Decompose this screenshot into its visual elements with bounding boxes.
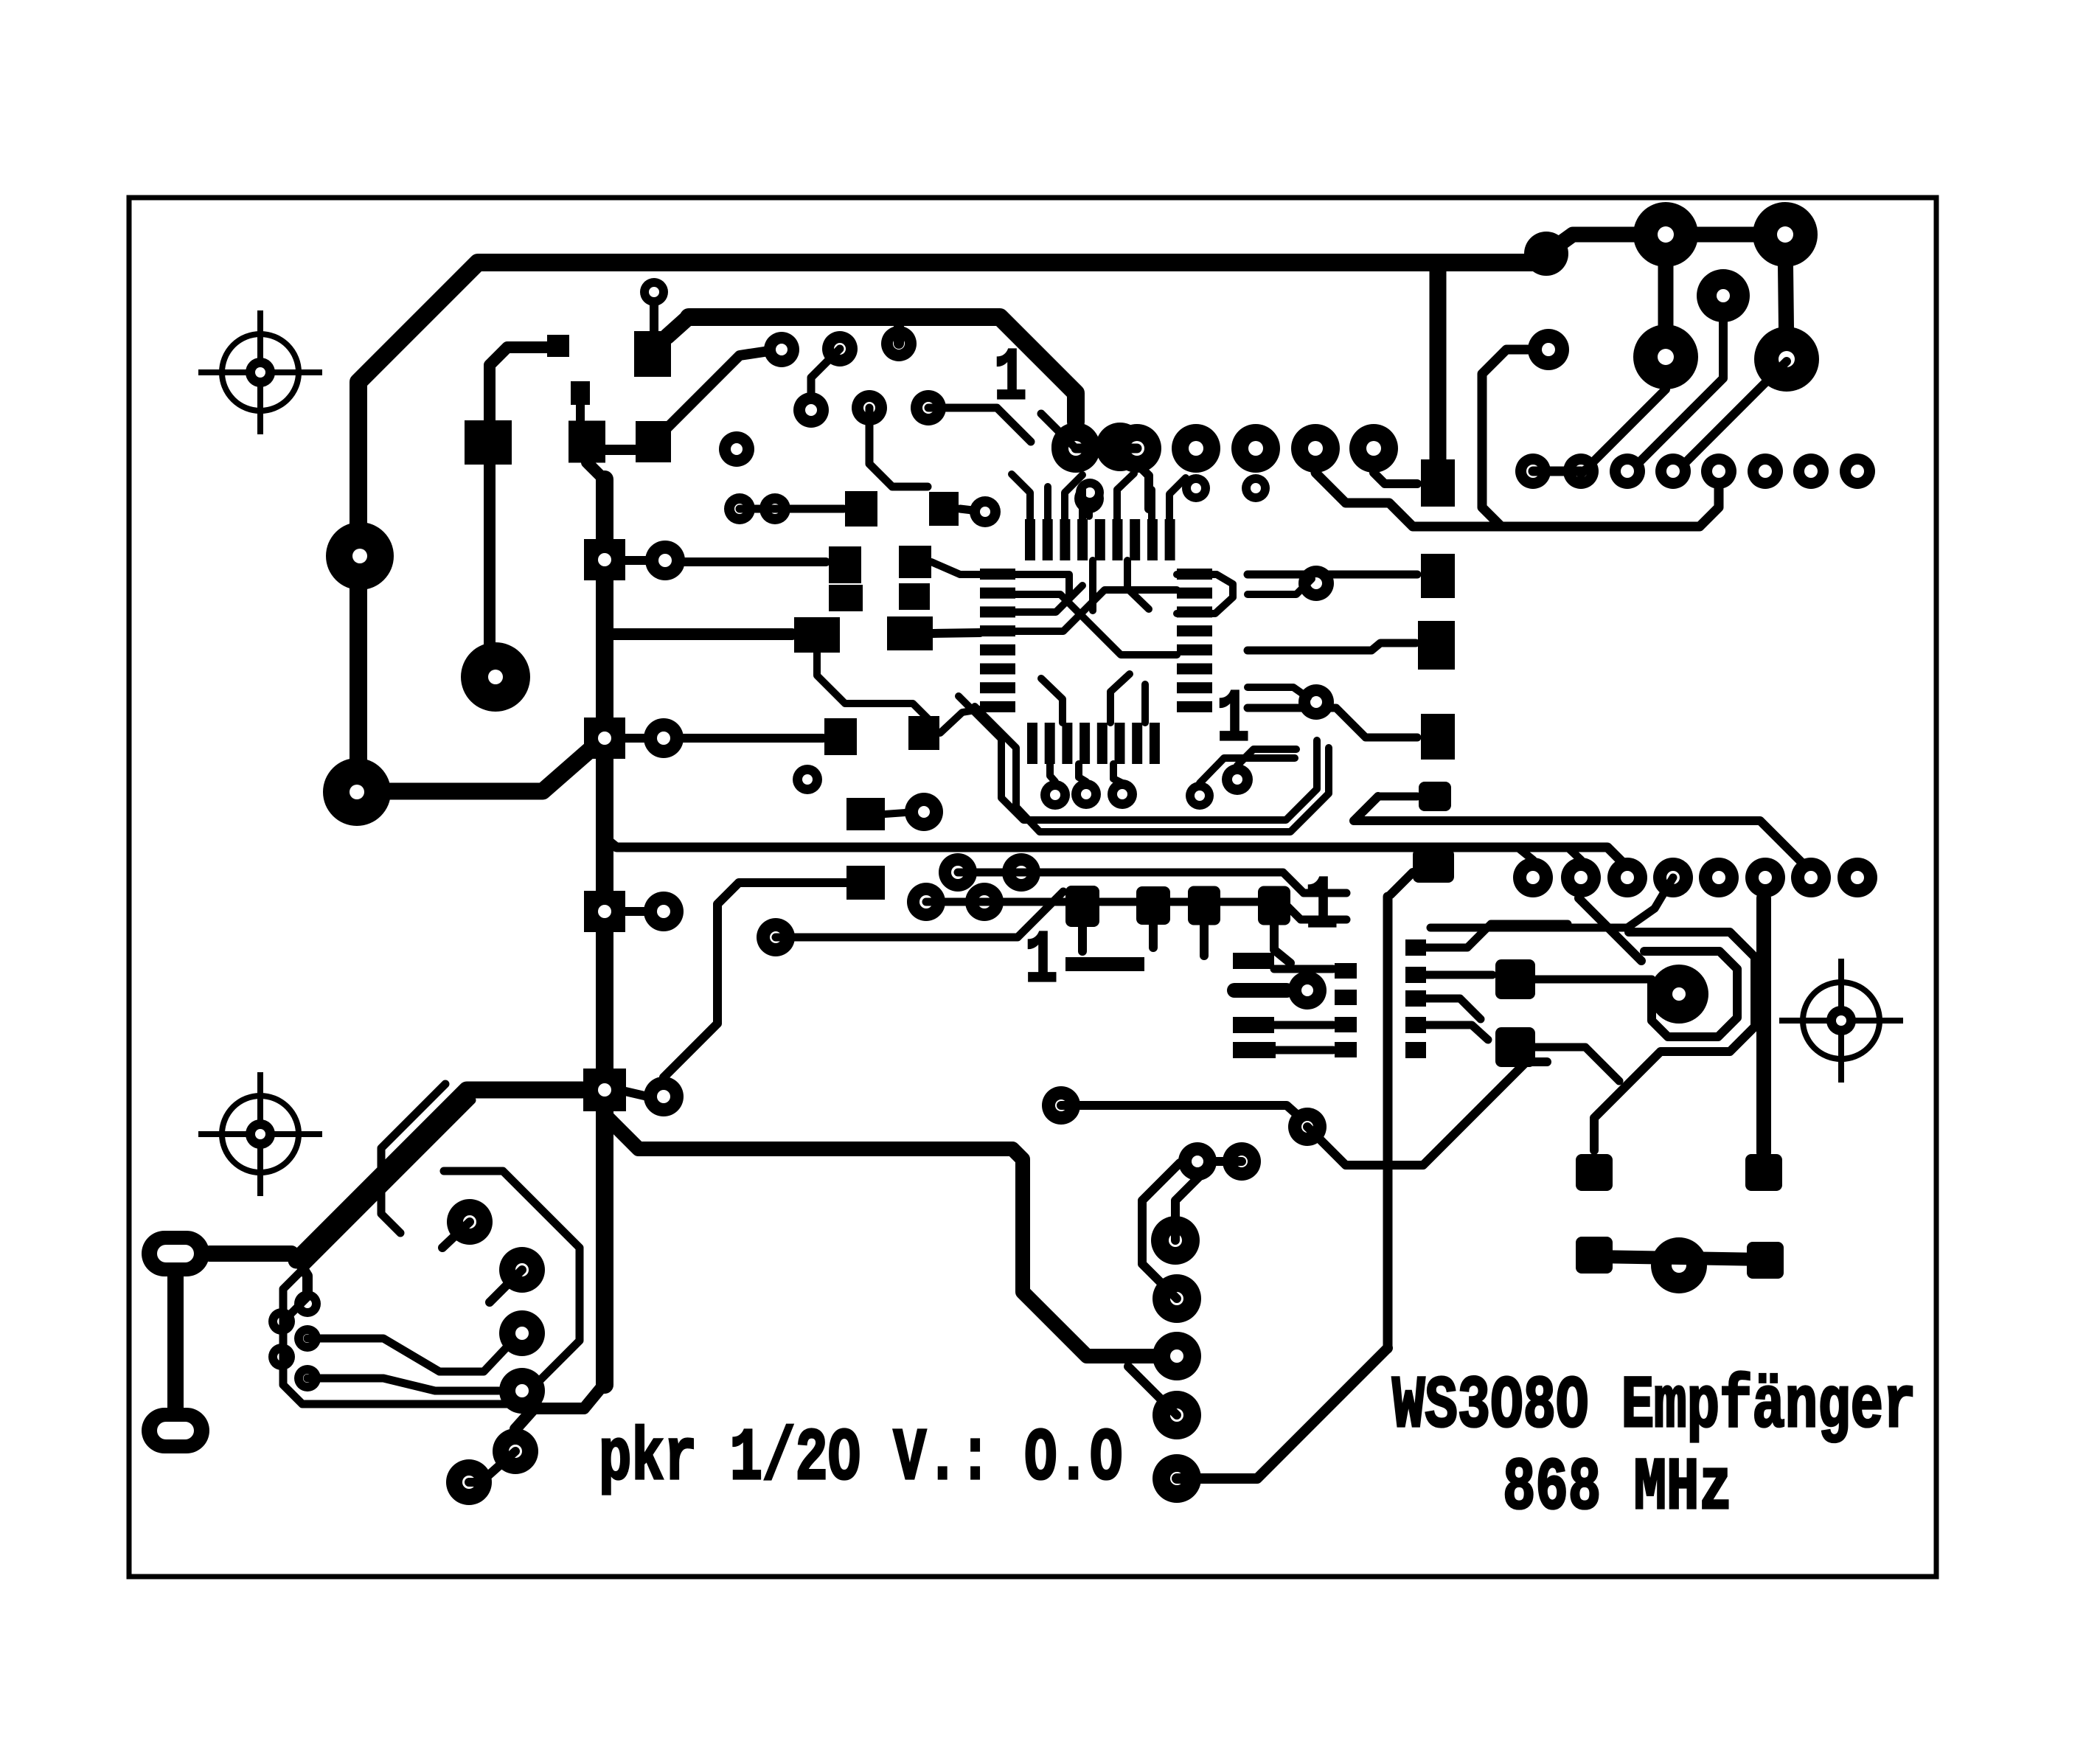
wire MD3 stub	[1200, 925, 1209, 956]
wire bus rail D	[776, 892, 1063, 937]
pad square K3	[584, 891, 625, 932]
smd pad L1	[829, 546, 861, 583]
via big W6	[447, 1199, 493, 1245]
wire J1-6 to P1	[1374, 473, 1417, 484]
via IC right 2	[1298, 684, 1334, 720]
wire W2 stub	[283, 1295, 310, 1321]
wire trunk start	[587, 462, 605, 480]
via IC fan 1	[1040, 780, 1070, 810]
wire TR5 to J2-3	[1630, 322, 1723, 472]
IC U1 right pin 4	[1177, 625, 1212, 636]
pad big TR1	[1633, 202, 1698, 267]
wire B1-B2	[958, 869, 1021, 877]
svg-text:WS3O8O Empfänger: WS3O8O Empfänger	[1392, 1366, 1916, 1449]
IC U1 top pin 9	[1165, 519, 1175, 560]
wire K2 stub	[625, 734, 644, 743]
wire fanout top pin7	[1148, 490, 1155, 519]
module right pin 2	[1405, 967, 1426, 983]
via big W7	[499, 1247, 545, 1293]
wire K1 stub	[625, 556, 646, 565]
smd pad MD4	[1258, 886, 1290, 925]
IC U1 left pin 8	[980, 701, 1015, 712]
IC U1 bottom pin 5	[1097, 723, 1108, 764]
wire S1 right	[209, 1254, 296, 1258]
via W1	[294, 1290, 321, 1317]
module left pin 4	[1335, 1042, 1357, 1057]
wire T6 right	[928, 408, 1031, 442]
IC U1 interior wire b	[1015, 586, 1082, 612]
pad connector J1-5	[1291, 424, 1340, 473]
wire fan stub1	[1050, 764, 1055, 782]
via T2	[822, 331, 858, 366]
pad connector J3-8	[1838, 858, 1877, 897]
smd pad MR1	[1495, 959, 1535, 999]
wire thick trunk to P1	[1430, 263, 1447, 461]
IC U1 left pin 6	[980, 664, 1015, 675]
IC U1 left pin 5	[980, 645, 1015, 656]
smd pad MB3	[1233, 1042, 1276, 1058]
module right pin 1	[1405, 939, 1426, 956]
smd pad R2	[1745, 1154, 1782, 1191]
wire MD4 stub	[1274, 925, 1290, 963]
wire pin to MR1	[1426, 971, 1492, 979]
via T4	[793, 392, 829, 428]
wire M2 to IC	[933, 633, 980, 633]
wire pin to MR2	[1426, 1025, 1488, 1040]
wire low diag	[1307, 1062, 1547, 1165]
wire J3-2 stub	[1568, 847, 1581, 860]
via col 1	[1151, 1216, 1200, 1265]
smd pad F3	[636, 421, 671, 462]
via IC fan 4	[1186, 782, 1214, 810]
smd pad D1	[634, 331, 671, 377]
via W5	[294, 1365, 321, 1392]
wire Q ring outer with tail	[1594, 932, 1755, 1150]
wire K1r to L1	[685, 557, 826, 566]
pad connector J2-5	[1701, 454, 1736, 489]
smd pad R3	[1576, 1237, 1613, 1274]
wire big diag to K4	[296, 1090, 583, 1260]
pad connector J2-8	[1840, 454, 1875, 489]
pad connector J2-7	[1793, 454, 1829, 489]
fiducial mark bottom-left	[198, 1072, 322, 1196]
IC U1 top pin 2	[1043, 519, 1053, 560]
IC U1 interior wire i	[1041, 678, 1063, 723]
pad big TR4	[1754, 327, 1819, 392]
wire F1 down to pad B	[484, 465, 496, 656]
IC U1 interior wire a	[1015, 574, 1069, 599]
smd pad N1	[824, 718, 857, 755]
wire T2-T4	[811, 349, 840, 410]
wire stub	[650, 305, 658, 332]
via N3	[793, 765, 822, 794]
wire IC pin to P2b	[1248, 643, 1416, 650]
pad oval S2	[142, 1408, 209, 1453]
via T1	[764, 332, 799, 367]
svg-text:1: 1	[1025, 920, 1057, 1004]
via IC fan 3	[1108, 779, 1137, 809]
pad connector J2-4	[1655, 454, 1691, 489]
smd pad E1	[547, 335, 569, 357]
via K2r	[644, 718, 684, 758]
wire fan via4 up	[1200, 758, 1295, 783]
pad connector J3-7	[1791, 858, 1831, 897]
IC U1 top pin 1	[1025, 519, 1035, 560]
wire H1-H2	[1076, 442, 1120, 452]
IC U1 bottom pin 4	[1079, 723, 1090, 764]
via T8	[724, 493, 755, 524]
wire S1-S2	[167, 1276, 184, 1408]
via K1r	[645, 541, 685, 580]
wire vertical right	[1756, 898, 1771, 1153]
IC U1 left pin 4	[980, 625, 1015, 636]
pad connector J3-3	[1607, 858, 1647, 897]
IC U1 top pin 3	[1060, 519, 1070, 560]
wire long vertical	[1383, 897, 1393, 1349]
wire pin to via IR1	[1248, 579, 1312, 594]
wire K4r to O3	[664, 883, 846, 1077]
IC U1 top pin 4	[1077, 519, 1088, 560]
wire bus rail C	[984, 902, 1346, 920]
smd pad P3	[1421, 714, 1455, 760]
module right pin 3	[1405, 990, 1426, 1007]
wire C1-C2	[926, 898, 984, 906]
smd pad G1	[845, 491, 877, 527]
wire J3-1 stub	[1517, 847, 1533, 860]
wire ring outline outer	[283, 1100, 580, 1404]
via IC fan 2	[1071, 779, 1101, 809]
IC U1 right pin 5	[1177, 645, 1212, 656]
pad connector J3-2	[1561, 858, 1601, 897]
smd pad MD1	[1065, 886, 1099, 927]
IC U1 left pin 1	[980, 569, 1015, 580]
IC U1 bottom pin 7	[1132, 723, 1142, 764]
module right pin 4	[1405, 1017, 1426, 1033]
wire ring outline inner	[381, 1084, 445, 1233]
wire thick to pad cluster	[1546, 234, 1666, 254]
wire fanout top pin1	[1012, 474, 1030, 519]
IC U1 left pin 3	[980, 606, 1015, 617]
via T11	[1074, 484, 1104, 513]
via T7	[719, 431, 754, 467]
smd pad M1	[794, 617, 840, 653]
IC U1 left pin 7	[980, 682, 1015, 693]
wire fan ring outer	[959, 696, 1317, 820]
IC U1 bottom pin 6	[1115, 723, 1125, 764]
smd pad M3	[829, 585, 863, 611]
wire F3 45 to via T1	[662, 350, 779, 433]
pad connector J2-1	[1515, 454, 1551, 489]
via ST	[1528, 329, 1569, 370]
pad oval S1	[142, 1231, 209, 1276]
wire W5 right	[307, 1378, 498, 1391]
wire H2 down	[1120, 447, 1149, 509]
via big W11	[446, 1459, 492, 1505]
wire low rail	[1061, 1105, 1307, 1124]
wire TR4 to J2-4	[1675, 361, 1787, 473]
via O2	[905, 793, 943, 831]
wire MR1 into ring	[1535, 976, 1652, 984]
module left pin 3	[1335, 1017, 1357, 1032]
IC U1 top pin 7	[1130, 519, 1140, 560]
IC U1 bottom pin 1	[1027, 723, 1037, 764]
wire E1 to F1	[490, 347, 558, 420]
via low M	[1288, 1108, 1327, 1146]
wire bus rail A to J3-3	[609, 841, 1627, 876]
wire 45 to bar	[667, 317, 689, 336]
IC U1 interior wire h	[1141, 684, 1149, 723]
IC U1 right pin 8	[1177, 701, 1212, 712]
wire G2 to T10	[960, 509, 985, 512]
pad big A	[326, 522, 394, 590]
via under J1-3	[1182, 474, 1210, 502]
via low L	[1042, 1086, 1080, 1125]
IC U1 interior wire f	[1127, 560, 1149, 609]
IC U1 top pin 6	[1113, 519, 1123, 560]
pad mid TR5	[1697, 269, 1750, 322]
fiducial mark top-left	[198, 310, 322, 434]
via T3	[881, 326, 917, 361]
via K3r	[644, 892, 684, 931]
smd pad M2	[887, 616, 933, 650]
smd pad R4	[1747, 1242, 1784, 1279]
wire MB1 to pin	[1274, 965, 1333, 973]
wire thick TR right	[1785, 234, 1787, 359]
wire fanout top pin4	[1079, 490, 1086, 519]
wire thick trunk vertical	[596, 479, 613, 1385]
wire J1-5 long to J2-5	[1315, 473, 1719, 527]
smd pad MR2	[1495, 1027, 1535, 1067]
smd pad P1	[1421, 459, 1455, 507]
wire MB2 to pin	[1274, 1021, 1333, 1029]
svg-text:1: 1	[1305, 866, 1338, 949]
via col 2	[1152, 1274, 1201, 1323]
wire fan stub3	[1113, 764, 1122, 783]
smd pad L2	[899, 546, 931, 578]
pad Q center	[1649, 965, 1708, 1024]
wire bus rail B	[1021, 872, 1346, 893]
board outline frame	[129, 198, 1936, 1577]
wire to J2-2	[1581, 470, 1585, 474]
wire MD1 stub	[1078, 927, 1087, 951]
smd pad P2	[1421, 554, 1455, 598]
wire bar to via	[1234, 983, 1287, 998]
pad connector J3-6	[1745, 858, 1785, 897]
svg-text:1: 1	[994, 338, 1026, 421]
pad H2	[1096, 423, 1144, 471]
pad R5	[1651, 1237, 1707, 1293]
IC U1 left pin 2	[980, 588, 1015, 599]
IC U1 right pin 6	[1177, 664, 1212, 675]
wire pin top right	[1426, 924, 1568, 948]
pad big B	[461, 642, 530, 712]
wire thick trunk-module	[606, 1116, 1177, 1356]
wire TR3 to J2-2	[1585, 389, 1666, 470]
via small top	[640, 278, 668, 306]
via IC fan 5	[1222, 764, 1253, 795]
wire T8-T9 to G1	[740, 505, 844, 513]
wire J3-4 left	[1430, 878, 1673, 928]
IC U1 bottom pin 3	[1062, 723, 1072, 764]
wire MB3 to pin	[1275, 1046, 1333, 1055]
fiducial mark right	[1779, 959, 1903, 1083]
wire trunk end to W10	[515, 1383, 605, 1429]
pad connector J1-1	[1051, 424, 1100, 473]
wire J1-1 up	[1041, 414, 1076, 448]
wire J1 1-2	[1076, 444, 1137, 454]
smd pad E2	[571, 381, 590, 405]
wire stub E2	[576, 405, 585, 420]
wire K3 stub	[625, 907, 644, 916]
via col 5	[1152, 1454, 1201, 1503]
via col 3	[1152, 1332, 1201, 1380]
via under J1-1	[1076, 479, 1104, 507]
via col 4	[1152, 1391, 1201, 1439]
IC U1 right pin 1	[1177, 569, 1212, 580]
wire L2 to IC	[931, 562, 980, 574]
wire thick TR left	[1658, 234, 1674, 357]
wire W3 right	[307, 1338, 509, 1372]
pad connector J3-1	[1513, 858, 1553, 897]
smd pad M4	[899, 583, 930, 610]
IC U1 interior wire c	[1015, 590, 1177, 631]
wire hook1	[1175, 1161, 1242, 1240]
wire fanout top pin2	[1044, 487, 1051, 519]
wire F2-F3	[605, 445, 635, 455]
wire thick second bar	[689, 317, 1076, 422]
svg-text:868 MHz: 868 MHz	[1503, 1448, 1732, 1531]
via T5	[852, 390, 887, 425]
via end of top bar	[1524, 232, 1568, 276]
via T10	[970, 496, 1001, 527]
pad connector J2-2	[1563, 454, 1599, 489]
via W2	[268, 1308, 295, 1335]
pad connector J1-3	[1172, 424, 1220, 473]
smd pad R1	[1576, 1154, 1613, 1191]
smd pad P2b	[1418, 621, 1455, 670]
via T6	[911, 390, 946, 425]
wire Q entry diag	[1579, 898, 1641, 961]
wire P3b stub	[1378, 793, 1417, 801]
via big W10	[493, 1428, 538, 1474]
wire junction down	[296, 1258, 307, 1298]
pad big TR2	[1753, 202, 1818, 267]
wire fan via5 up	[1237, 749, 1296, 765]
via big W8	[499, 1310, 545, 1356]
smd pad MB2	[1233, 1017, 1274, 1033]
wire rail R1 to J3-7	[1354, 796, 1810, 871]
smd pad G2	[929, 492, 959, 526]
wire W6 stub	[442, 1222, 470, 1248]
via C1	[907, 883, 945, 921]
smd pad P4	[1413, 849, 1454, 883]
via low A	[1178, 1142, 1217, 1181]
IC U1 interior wire g	[1110, 674, 1130, 723]
wire fanout top pin3	[1065, 475, 1082, 519]
wire GND thick top loop	[358, 263, 1532, 792]
IC U1 right pin 2	[1177, 588, 1212, 599]
IC U1 top pin 5	[1095, 519, 1105, 560]
wire fan stub2	[1079, 764, 1086, 782]
pad connector J1-2	[1113, 424, 1161, 473]
pad connector J1-6	[1349, 424, 1398, 473]
IC U1 top pin 8	[1147, 519, 1158, 560]
svg-text:pkr 1/2O V.: O.O: pkr 1/2O V.: O.O	[599, 1418, 1122, 1501]
via B2	[1002, 853, 1040, 892]
wire MR2 to tail	[1535, 1047, 1619, 1081]
svg-text:1: 1	[1217, 679, 1249, 762]
via C2	[965, 883, 1004, 921]
wire P4 stub	[1391, 872, 1413, 894]
module right pin 5	[1405, 1042, 1426, 1058]
smd pad O1	[846, 798, 885, 830]
smd bar under MD1	[1065, 957, 1144, 971]
pad square K4	[583, 1069, 626, 1111]
wire MD2 stub	[1149, 925, 1158, 948]
wire bottom row	[1594, 1257, 1765, 1260]
pad square K2	[584, 718, 625, 759]
wire fanout top pin8	[1169, 478, 1186, 519]
wire thick pad C to trunk	[357, 750, 603, 791]
wire thick TR top	[1666, 227, 1785, 243]
pad connector J2-3	[1610, 454, 1645, 489]
wire M1 down	[817, 652, 933, 724]
pad connector J3-4	[1653, 858, 1693, 897]
pad connector J3-5	[1699, 858, 1739, 897]
via big W9	[499, 1368, 545, 1414]
smd pad F2	[569, 421, 605, 463]
wire col5 diag to vertical	[1177, 1348, 1388, 1479]
IC U1 interior wire e	[1089, 560, 1096, 611]
via W4	[268, 1344, 295, 1370]
wire staircase from via	[1482, 350, 1548, 527]
wire stub T11	[1085, 498, 1093, 516]
IC U1 bottom pin 8	[1150, 723, 1160, 764]
wire IC pin to P2	[1248, 571, 1417, 579]
smd pad N2	[908, 716, 939, 750]
wire stub T3	[894, 327, 904, 344]
smd pad MB1	[1233, 953, 1274, 969]
via K4r	[644, 1077, 684, 1116]
wire IC pin to P3	[1248, 708, 1417, 737]
wire K2r to N1	[684, 734, 823, 743]
smd pad MD2	[1136, 886, 1170, 925]
via W3	[294, 1325, 321, 1352]
wire trunk to M1	[605, 628, 792, 640]
wire N2 to IC	[940, 709, 980, 733]
wire pin mid right	[1426, 998, 1481, 1019]
wire O1-O2	[885, 813, 905, 814]
IC U1 interior wire d	[1015, 594, 1177, 655]
IC U1 right pin 3	[1177, 606, 1212, 617]
via IC right 1	[1298, 566, 1334, 601]
wire W10-W11	[469, 1451, 515, 1482]
wire fan ring inner	[975, 706, 1329, 832]
via B1	[939, 853, 977, 892]
smd pad MD3	[1188, 886, 1220, 925]
module left pin 1	[1335, 963, 1357, 979]
via under J1-4	[1242, 474, 1270, 502]
via module	[1288, 971, 1327, 1010]
pad connector J2-6	[1748, 454, 1783, 489]
IC U1 right pin 7	[1177, 682, 1212, 693]
smd pad F1	[465, 420, 512, 465]
wire hook2	[1142, 1163, 1180, 1299]
wire pin to via IR2	[1248, 687, 1308, 698]
wire fanout top pin6	[1117, 473, 1134, 519]
module left pin 2	[1335, 990, 1357, 1005]
wire col4 stub	[1128, 1366, 1177, 1415]
